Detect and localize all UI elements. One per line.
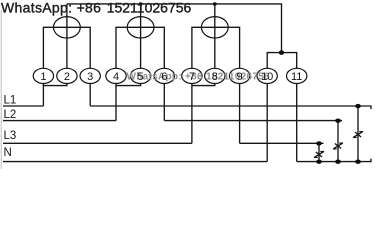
junction dot branch 1 / load neutral [316, 160, 322, 164]
terminal 7 [182, 68, 202, 83]
terminal 3 [80, 68, 100, 83]
terminal 11 [287, 68, 307, 83]
wire: phase A load line [90, 106, 371, 109]
wire: L1 feed drop to terminal 1 [42, 86, 44, 106]
load branch 3 wire [357, 106, 359, 162]
wire: phase B load line [164, 120, 342, 122]
load symbol branch 2 [333, 143, 343, 149]
svg-text:L2: L2 [4, 109, 17, 121]
load symbol branch 1 [314, 152, 324, 158]
wire: terminal 3 load drop phase A [89, 83, 91, 106]
terminal 10 [257, 68, 277, 83]
junction dot top bus / U3 [213, 2, 217, 6]
wire: load neutral line [297, 159, 371, 162]
junction dot branch 2 / phase B [335, 119, 341, 123]
wire: voltage link bar terminals 4-5 [116, 83, 141, 85]
wire: terminal 6 load drop phase B [163, 83, 165, 120]
junction dot branch 3 / phase A [355, 104, 361, 108]
terminal 4 [106, 68, 126, 83]
wire: neutral top bus from coil U1 to junction above terminals 10-11 [67, 4, 282, 53]
wire: link bar over terminals 10-11 [267, 53, 297, 69]
junction dot neutral link bar [279, 50, 284, 55]
wire: phase C load line [240, 142, 324, 144]
junction dot branch 2 / load neutral [335, 160, 341, 164]
svg-text:5: 5 [138, 71, 144, 83]
load symbol branch 3 [353, 132, 363, 138]
svg-text:8: 8 [212, 71, 218, 83]
svg-text:WhatsApp: +86: WhatsApp: +86 [1, 0, 101, 15]
terminal 6 [154, 68, 174, 83]
wire: L3 source segment [3, 142, 192, 144]
current coil loop phase B terminals 4-6 [116, 27, 164, 68]
voltage coil U3 (phase C) circle [201, 17, 228, 38]
terminal 5 [130, 68, 150, 83]
load branch 2 wire [337, 121, 339, 162]
current coil loop phase C terminals 7-9 [192, 27, 240, 68]
voltage coil U2 (phase B) circle [127, 17, 154, 38]
wire: terminal 9 load drop phase C [239, 83, 241, 143]
terminal 9 [229, 68, 249, 83]
svg-text:9: 9 [237, 71, 243, 83]
current coil loop phase A terminals 1-3 [43, 27, 90, 68]
svg-text:10: 10 [261, 71, 273, 83]
wire: L2 source segment [3, 120, 116, 122]
svg-text:11: 11 [291, 71, 302, 83]
svg-text:2: 2 [64, 71, 70, 83]
svg-text:1: 1 [40, 71, 46, 83]
wire: L3 feed drop to terminal 7 [191, 86, 193, 144]
wire: U2 vertical through coil to terminal 5 [140, 4, 142, 69]
svg-text:N: N [4, 147, 12, 159]
junction dot branch 3 / load neutral [355, 160, 361, 164]
wire: L1 source segment [3, 105, 43, 107]
wire: L2 feed drop to terminal 4 [115, 86, 117, 121]
load branch 1 wire [318, 143, 320, 161]
wire: U3 vertical through coil to terminal 8 [214, 4, 216, 69]
junction dot branch 1 / phase C [316, 141, 322, 145]
svg-text:L1: L1 [4, 94, 17, 106]
scan edge artifact left [0, 10, 2, 169]
terminal 1 [33, 68, 53, 83]
svg-text:L3: L3 [4, 130, 17, 142]
wire: terminal 11 drop to load neutral [296, 83, 298, 161]
wire: U1 vertical through coil to terminal 2 [66, 4, 68, 69]
wire: N source segment [3, 161, 267, 163]
wire: terminal 10 drop to neutral [266, 83, 268, 161]
voltage coil U1 (phase A) circle [54, 17, 81, 38]
terminal 8 [205, 68, 225, 83]
junction dot top bus / U2 [139, 2, 143, 6]
terminal 2 [57, 68, 77, 83]
svg-text:15211026756: 15211026756 [107, 0, 192, 15]
svg-text:4: 4 [113, 71, 119, 83]
svg-text:WhatsApp: +86 15211026756: WhatsApp: +86 15211026756 [127, 72, 271, 83]
svg-text:6: 6 [161, 71, 167, 83]
wire: voltage link bar terminals 7-8 [192, 83, 215, 85]
svg-text:7: 7 [189, 71, 195, 83]
wire: voltage link bar terminals 1-2 [43, 83, 67, 85]
svg-text:3: 3 [87, 71, 93, 83]
